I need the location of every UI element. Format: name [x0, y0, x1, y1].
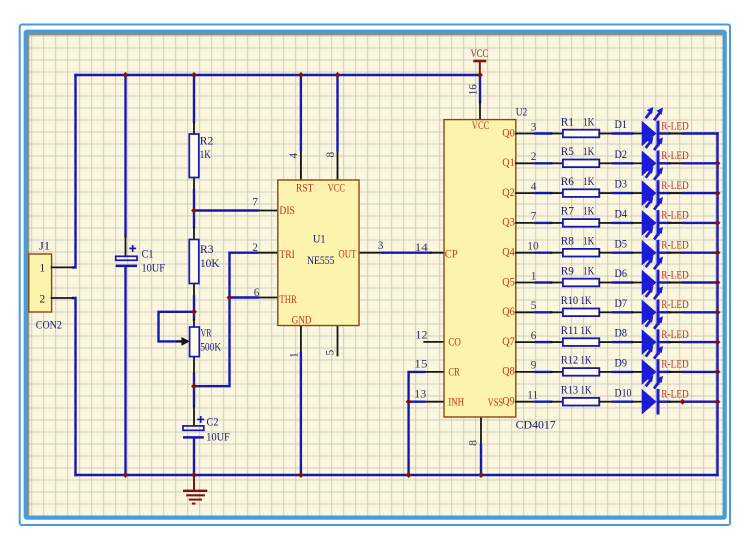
CD4017 output Q0 pin 3 row: [502, 121, 551, 139]
svg-text:1K: 1K: [580, 355, 592, 367]
svg-text:1: 1: [531, 270, 537, 282]
svg-text:R-LED: R-LED: [661, 329, 689, 341]
junction row 4 / right bus: [715, 220, 721, 226]
wire left vertical J1 pin2 to bottom bus: [73, 298, 76, 475]
svg-text:1K: 1K: [580, 385, 592, 397]
resistor R9 1K: [551, 265, 613, 286]
svg-text:R1: R1: [561, 116, 574, 128]
svg-text:C1: C1: [142, 249, 154, 261]
CD4017 output Q6 pin 5 row: [502, 300, 551, 318]
svg-text:12: 12: [415, 329, 428, 341]
svg-text:2: 2: [531, 151, 537, 163]
wire left vertical J1 pin1 to top bus: [73, 75, 76, 267]
LED D3 R-LED: [615, 167, 718, 206]
svg-text:U2: U2: [516, 106, 528, 118]
junction C1 / bottom bus: [123, 472, 129, 478]
capacitor C2 10UF: [183, 416, 230, 444]
svg-text:Q0: Q0: [502, 127, 515, 139]
LED D8 R-LED: [615, 316, 718, 355]
wire R3 to VR: [193, 284, 195, 297]
CD4017 output Q5 pin 1 row: [502, 270, 551, 288]
wire bus to R2: [193, 75, 195, 122]
svg-text:Q4: Q4: [502, 247, 515, 259]
LED D2 R-LED: [615, 137, 718, 176]
junction R2 / top bus: [191, 72, 197, 78]
wire C1 top branch: [124, 75, 126, 236]
wire VCC symbol to CD4017 pin16: [479, 75, 481, 102]
svg-text:NE555: NE555: [307, 255, 335, 267]
wire bottom GND bus: [76, 474, 718, 476]
svg-text:R-LED: R-LED: [661, 389, 689, 401]
svg-text:10UF: 10UF: [142, 262, 166, 274]
LED D9 R-LED: [615, 345, 718, 384]
svg-text:1K: 1K: [583, 265, 595, 277]
svg-text:CD4017: CD4017: [516, 419, 556, 431]
svg-text:TRI: TRI: [279, 249, 295, 261]
junction D10 wire: [680, 399, 686, 405]
svg-text:R-LED: R-LED: [661, 120, 689, 132]
CD4017 output Q3 pin 7 row: [502, 211, 551, 229]
wire NE555 OUT to CD4017 CP pin14: [359, 252, 383, 254]
svg-text:CO: CO: [448, 337, 461, 349]
svg-text:Q9: Q9: [502, 396, 515, 408]
wire top VCC bus: [76, 74, 481, 76]
wire VR to C2 / THR node: [193, 357, 195, 374]
svg-text:1K: 1K: [583, 146, 595, 158]
resistor R11 1K: [551, 325, 613, 346]
junction row 7 / right bus: [715, 309, 721, 315]
svg-text:Q5: Q5: [502, 276, 515, 288]
wire C1 bottom branch: [124, 267, 126, 475]
wire NE555 pin1 GND to bottom bus: [300, 326, 302, 354]
svg-text:D5: D5: [615, 238, 628, 250]
CD4017 output Q8 pin 9 row: [502, 360, 551, 378]
svg-text:6: 6: [254, 287, 260, 299]
svg-text:DIS: DIS: [279, 205, 295, 217]
svg-text:R6: R6: [561, 176, 575, 188]
svg-text:1K: 1K: [583, 236, 595, 248]
CD4017 output Q4 pin 10 row: [502, 241, 551, 259]
wire CD4017 INH pin13 branch: [424, 401, 444, 403]
wire R8 to D5: [613, 251, 632, 253]
svg-text:7: 7: [252, 197, 258, 209]
wire NE555 pin4 RST to bus: [300, 150, 302, 180]
resistor R2 1K: [189, 134, 213, 178]
svg-text:CON2: CON2: [36, 320, 62, 332]
junction VSS / bottom bus: [478, 472, 484, 478]
wire R1 to D1: [613, 132, 632, 134]
svg-text:R9: R9: [561, 265, 575, 277]
svg-text:Q3: Q3: [502, 217, 515, 229]
svg-text:1K: 1K: [200, 149, 212, 161]
svg-text:11: 11: [527, 390, 538, 402]
junction TRI-THR node: [227, 295, 233, 301]
svg-text:VSS: VSS: [488, 397, 504, 409]
svg-text:3: 3: [378, 240, 384, 252]
svg-text:R-LED: R-LED: [661, 150, 689, 162]
wire R7 to D4: [613, 222, 632, 224]
junction DIS node: [191, 208, 197, 214]
CD4017 output Q1 pin 2 row: [502, 151, 551, 169]
wire R12 to D9: [613, 371, 632, 373]
svg-text:VR: VR: [201, 327, 212, 339]
svg-text:CP: CP: [445, 249, 458, 261]
junction row 5 / right bus: [715, 250, 721, 256]
svg-text:INH: INH: [448, 397, 464, 409]
wire R9 to D6: [613, 281, 632, 283]
svg-text:7: 7: [531, 211, 537, 223]
wire R2 to R3 / DIS node: [193, 178, 195, 191]
junction row 3 / right bus: [715, 190, 721, 196]
svg-text:Q7: Q7: [502, 336, 515, 348]
svg-text:Q6: Q6: [502, 306, 515, 318]
svg-text:D7: D7: [615, 298, 628, 310]
wire VR wiper loop: [159, 312, 195, 342]
NE555 pin5 unconnected stub: [337, 326, 339, 356]
svg-text:8: 8: [467, 440, 479, 446]
svg-text:R8: R8: [561, 236, 575, 248]
svg-text:5: 5: [531, 300, 537, 312]
op IC U1 NE555 timer: [278, 180, 359, 327]
wire CD4017 VSS pin8 to bottom bus: [480, 417, 482, 445]
svg-text:R12: R12: [561, 355, 579, 367]
svg-text:U1: U1: [313, 234, 326, 246]
wire NE555 DIS to R2/R3 node: [257, 210, 277, 212]
LED D7 R-LED: [615, 286, 718, 325]
svg-text:1K: 1K: [580, 295, 592, 307]
wire C2 to bottom bus: [193, 439, 195, 475]
svg-text:R-LED: R-LED: [661, 210, 689, 222]
svg-text:R-LED: R-LED: [661, 299, 689, 311]
svg-text:1K: 1K: [580, 325, 592, 337]
junction pin8 / top bus: [335, 72, 341, 78]
resistor R5 1K: [551, 146, 613, 167]
potentiometer VR 500K: [177, 327, 222, 357]
junction row 2 / right bus: [715, 160, 721, 166]
svg-text:CR: CR: [448, 367, 460, 379]
capacitor C1 10UF: [116, 245, 165, 274]
svg-text:C2: C2: [207, 417, 219, 429]
svg-text:R7: R7: [561, 206, 575, 218]
svg-text:1K: 1K: [583, 176, 595, 188]
svg-text:1: 1: [40, 262, 46, 274]
resistor R13 1K: [551, 385, 613, 406]
svg-text:10: 10: [527, 241, 539, 253]
wire R5 to D2: [613, 162, 632, 164]
svg-text:RST: RST: [296, 183, 314, 195]
junction row 10 / right bus: [715, 399, 721, 405]
resistor R3 10K: [189, 240, 220, 284]
svg-text:Q8: Q8: [502, 366, 515, 378]
junction C1 / top bus: [123, 72, 129, 78]
svg-text:10K: 10K: [200, 258, 220, 270]
junction pin1 / bottom bus: [298, 472, 304, 478]
wire THR node down to VR bottom node: [194, 298, 230, 387]
svg-text:D8: D8: [615, 328, 628, 340]
svg-text:J1: J1: [39, 240, 50, 252]
svg-text:R-LED: R-LED: [661, 240, 689, 252]
junction pin4 / top bus: [298, 72, 304, 78]
svg-text:THR: THR: [279, 294, 297, 306]
svg-text:OUT: OUT: [338, 248, 356, 260]
svg-text:13: 13: [414, 389, 426, 401]
junction row 9 / right bus: [715, 369, 721, 375]
svg-text:4: 4: [288, 153, 300, 159]
svg-text:R2: R2: [200, 135, 214, 147]
svg-text:4: 4: [531, 181, 537, 193]
junction VR wiper node: [191, 309, 197, 315]
junction row 8 / right bus: [715, 339, 721, 345]
wire R6 to D3: [613, 192, 632, 194]
svg-text:D4: D4: [615, 209, 628, 221]
svg-text:R-LED: R-LED: [661, 180, 689, 192]
svg-text:R11: R11: [561, 325, 579, 337]
LED D1 R-LED: [615, 107, 718, 146]
resistor R1 1K: [551, 116, 613, 137]
wire R11 to D8: [613, 341, 632, 343]
svg-text:D2: D2: [615, 149, 628, 161]
svg-text:Q2: Q2: [502, 187, 515, 199]
svg-text:VCC: VCC: [471, 47, 489, 60]
svg-text:R10: R10: [561, 295, 579, 307]
svg-text:9: 9: [531, 360, 537, 372]
wire R10 to D7: [613, 311, 632, 313]
svg-text:8: 8: [325, 152, 337, 158]
svg-text:16: 16: [468, 84, 480, 96]
U2 left pin number labels: [414, 84, 479, 446]
resistor R7 1K: [551, 206, 613, 227]
svg-text:D9: D9: [615, 358, 628, 370]
resistor R12 1K: [551, 355, 613, 376]
svg-text:500K: 500K: [200, 342, 222, 354]
svg-text:3: 3: [531, 121, 537, 133]
ground symbol: [183, 475, 207, 504]
wire R13 to D10: [613, 401, 632, 403]
U1 pin number labels: [252, 152, 383, 359]
junction row 6 / right bus: [715, 280, 721, 286]
svg-text:D6: D6: [615, 268, 628, 280]
wire CD4017 CR pin15 branch: [424, 371, 444, 373]
junction CR / bottom bus: [406, 472, 412, 478]
svg-text:GND: GND: [292, 315, 312, 327]
svg-text:2: 2: [252, 242, 258, 254]
resistor R8 1K: [551, 236, 613, 257]
svg-text:5: 5: [325, 350, 337, 356]
svg-text:14: 14: [415, 242, 428, 254]
CD4017 output Q9 pin 11 row: [502, 390, 551, 408]
svg-text:R3: R3: [200, 244, 214, 256]
svg-text:R-LED: R-LED: [661, 269, 689, 281]
wire right LED return bus: [716, 134, 718, 476]
svg-text:R-LED: R-LED: [661, 359, 689, 371]
CD4017 CO pin12 unconnected stub: [424, 341, 444, 343]
LED D10 R-LED: [615, 375, 718, 414]
LED D6 R-LED: [615, 256, 718, 295]
connector J1 CON2: [29, 240, 73, 331]
svg-text:R13: R13: [561, 385, 579, 397]
junction CR-INH node: [406, 399, 412, 405]
svg-text:VCC: VCC: [472, 120, 490, 132]
wire NE555 TRI to THR: [257, 252, 277, 254]
svg-text:Q1: Q1: [502, 157, 515, 169]
junction C2-GND / bottom bus: [191, 472, 197, 478]
LED D5 R-LED: [615, 226, 718, 265]
svg-text:R5: R5: [561, 146, 575, 158]
svg-text:10UF: 10UF: [206, 432, 230, 444]
svg-text:1K: 1K: [583, 116, 595, 128]
junction VR bottom node: [191, 383, 197, 389]
svg-text:D10: D10: [615, 387, 632, 399]
svg-text:D1: D1: [615, 119, 628, 131]
svg-text:VCC: VCC: [328, 183, 346, 195]
LED D4 R-LED: [615, 196, 718, 235]
svg-text:1K: 1K: [583, 206, 595, 218]
CD4017 output Q2 pin 4 row: [502, 181, 551, 199]
power symbol VCC: [471, 47, 489, 74]
svg-text:15: 15: [414, 359, 428, 371]
svg-text:6: 6: [531, 330, 537, 342]
resistor R6 1K: [551, 176, 613, 197]
svg-text:1: 1: [288, 352, 300, 358]
CD4017 output Q7 pin 6 row: [502, 330, 551, 348]
svg-text:D3: D3: [615, 179, 628, 191]
resistor R10 1K: [551, 295, 613, 316]
junction VCC / top bus: [477, 72, 483, 78]
counter IC U2 CD4017: [444, 106, 556, 431]
wire NE555 pin8 VCC to bus: [337, 150, 339, 180]
svg-text:2: 2: [40, 293, 46, 305]
wire NE555 THR stub: [257, 297, 277, 299]
